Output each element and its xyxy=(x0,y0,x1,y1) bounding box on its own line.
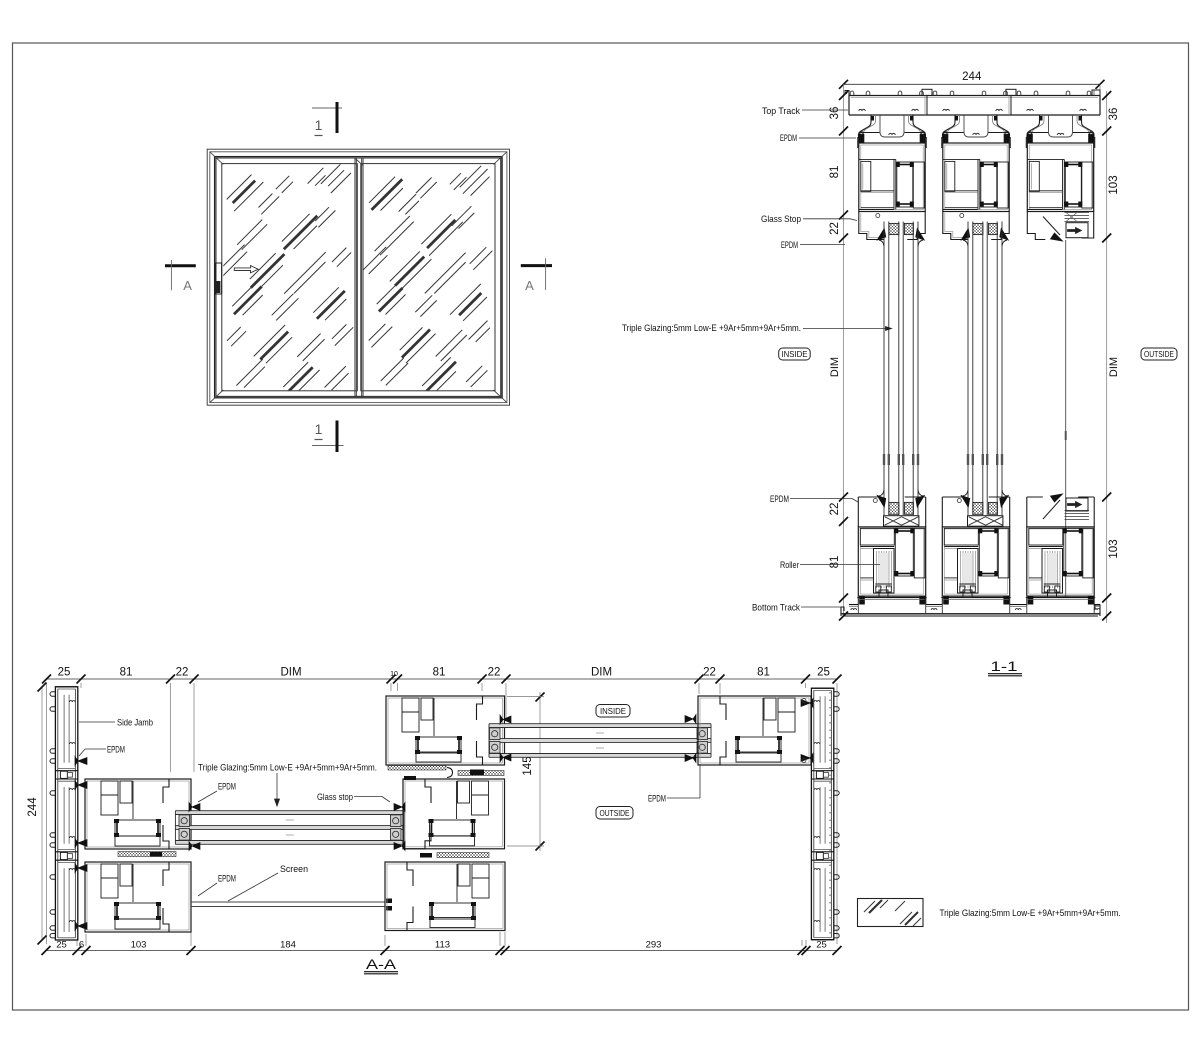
svg-text:293: 293 xyxy=(646,940,662,951)
sash main box xyxy=(943,143,1009,212)
svg-text:25: 25 xyxy=(817,667,830,679)
screen clamp detail xyxy=(1065,212,1090,214)
svg-text:INSIDE: INSIDE xyxy=(782,350,808,359)
EPDM clamps at glazing bottom xyxy=(877,496,886,508)
svg-text:103: 103 xyxy=(1108,175,1120,194)
neck EPDM dots xyxy=(1040,116,1043,121)
svg-text:10: 10 xyxy=(390,671,398,678)
svg-text:Triple Glazing:5mm Low-E +9Ar+: Triple Glazing:5mm Low-E +9Ar+5mm+9Ar+5m… xyxy=(940,908,1121,919)
glazing spacers xyxy=(973,223,983,234)
sash main box xyxy=(1027,143,1093,212)
svg-text:Bottom Track: Bottom Track xyxy=(752,603,800,614)
neck EPDM dots xyxy=(871,116,874,121)
EPDM gaskets top xyxy=(858,134,864,143)
interlock brush strips row2/row3 left xyxy=(118,852,176,857)
svg-text:Top Track: Top Track xyxy=(762,106,800,117)
left dim ticks xyxy=(839,91,848,100)
glass stop xyxy=(943,212,968,240)
svg-text:A: A xyxy=(183,278,192,293)
EPDM clamps at glazing bottom xyxy=(961,496,970,508)
plan sash box 403,779 xyxy=(403,779,505,849)
glazing spacers bottom xyxy=(889,502,899,514)
A-A top dim line xyxy=(47,678,838,680)
svg-text:1: 1 xyxy=(315,117,323,133)
INSIDE label A-A xyxy=(596,705,630,718)
svg-text:244: 244 xyxy=(962,71,982,83)
setting block bowtie xyxy=(968,516,1003,527)
EPDM at jamb row3 xyxy=(75,864,87,873)
jamb outer xyxy=(811,688,833,940)
top sash profile at 976 xyxy=(942,115,955,148)
neck EPDM dots xyxy=(955,116,958,121)
svg-text:EPDM: EPDM xyxy=(218,874,236,885)
slide direction arrow xyxy=(234,266,258,273)
svg-text:Glass stop: Glass stop xyxy=(317,792,353,803)
svg-text:22: 22 xyxy=(176,667,189,679)
section marker 1 top xyxy=(312,107,342,109)
bottom sash main box xyxy=(1027,527,1094,596)
sash main box xyxy=(859,143,925,212)
horizontal glazing strip 175.4-404 xyxy=(175,811,404,815)
EPDM gaskets bottom corners xyxy=(943,596,949,604)
svg-text:Side Jamb: Side Jamb xyxy=(117,718,153,729)
svg-text:81: 81 xyxy=(433,667,446,679)
diagonal stay xyxy=(1043,217,1060,236)
EPDM gaskets bottom corners xyxy=(859,596,865,604)
extension line right 244 xyxy=(1099,84,1101,98)
INSIDE label 1-1 xyxy=(779,348,811,360)
svg-text:A: A xyxy=(525,278,534,293)
setting block bowtie xyxy=(884,516,919,527)
screen clamp detail bottom xyxy=(1065,510,1090,512)
svg-text:25: 25 xyxy=(56,940,67,951)
A-A bottom dim line xyxy=(46,950,837,952)
svg-text:22: 22 xyxy=(829,222,841,235)
spacer blocks with circles xyxy=(179,815,190,827)
interlock brush strips row1/row2 xyxy=(388,766,446,771)
svg-text:103: 103 xyxy=(131,940,147,951)
svg-text:244: 244 xyxy=(27,797,39,817)
plan sash box 386,696 xyxy=(386,696,505,765)
svg-text:22: 22 xyxy=(829,503,841,516)
svg-text:25: 25 xyxy=(58,667,71,679)
glazing spacers bottom xyxy=(973,502,983,514)
screen line third sash xyxy=(1065,240,1067,597)
svg-text:EPDM: EPDM xyxy=(770,494,789,505)
svg-text:22: 22 xyxy=(703,667,716,679)
svg-text:Triple Glazing:5mm Low-E +9Ar+: Triple Glazing:5mm Low-E +9Ar+5mm+9Ar+5m… xyxy=(198,763,377,774)
screen clamps box F xyxy=(386,899,392,904)
handle xyxy=(215,263,221,294)
spacer blocks with circles xyxy=(697,728,708,740)
right sash frame xyxy=(355,158,501,396)
top sash profile at 1060.5 xyxy=(1026,115,1039,148)
svg-text:145: 145 xyxy=(522,756,534,775)
right dim line xyxy=(1106,91,1108,623)
legend glass symbol xyxy=(858,899,924,927)
right pane glass hatching xyxy=(360,166,492,391)
triple glazing lines at 985.0 xyxy=(967,222,969,516)
top sash profile at 892 xyxy=(858,115,871,148)
EPDM gaskets top xyxy=(942,134,948,143)
jamb outer xyxy=(55,687,77,940)
OUTSIDE label 1-1 xyxy=(1141,348,1177,360)
screen lines xyxy=(191,901,385,903)
elevation outer frame xyxy=(207,149,509,405)
EPDM gaskets top xyxy=(1027,134,1033,143)
triple glazing lines at 901.0 xyxy=(883,222,885,516)
svg-text:81: 81 xyxy=(120,667,133,679)
frame corner miters xyxy=(210,152,223,165)
svg-text:EPDM: EPDM xyxy=(107,745,125,756)
plan sash box 85,862 xyxy=(85,862,191,932)
glass stop xyxy=(859,212,884,240)
section 1-1 dimension 244 xyxy=(844,83,1101,85)
svg-text:113: 113 xyxy=(435,940,450,951)
extension line left xyxy=(843,84,845,616)
svg-text:DIM: DIM xyxy=(280,667,301,679)
bottom sash main box xyxy=(942,527,1009,596)
svg-text:DIM: DIM xyxy=(829,357,841,377)
plan sash box 85,779 xyxy=(85,779,191,849)
svg-text:Glass Stop: Glass Stop xyxy=(761,214,801,225)
EPDM wedges row2 xyxy=(189,803,200,812)
horizontal glazing strip 489-711 xyxy=(489,724,711,728)
A-A extension lines xyxy=(46,683,48,944)
interlock brush strips row2/row3 right xyxy=(437,853,489,858)
EPDM gaskets bottom corners xyxy=(1028,596,1034,604)
svg-text:INSIDE: INSIDE xyxy=(600,707,626,716)
svg-text:6: 6 xyxy=(79,940,84,951)
svg-text:A-A: A-A xyxy=(366,957,396,972)
svg-text:36: 36 xyxy=(1108,108,1120,121)
svg-text:EPDM: EPDM xyxy=(648,794,666,805)
meeting stile xyxy=(355,158,357,396)
section marker A left xyxy=(165,264,196,267)
EPDM wedges at glazing xyxy=(877,229,886,241)
elevation frame inner edge xyxy=(215,157,503,398)
left sash frame xyxy=(216,158,363,396)
svg-text:EPDM: EPDM xyxy=(780,133,797,144)
svg-text:OUTSIDE: OUTSIDE xyxy=(1144,350,1174,359)
spacer blocks with circles xyxy=(490,728,501,740)
roller xyxy=(1042,549,1063,594)
svg-text:103: 103 xyxy=(1108,539,1120,558)
roller xyxy=(874,549,895,594)
svg-text:81: 81 xyxy=(829,556,841,569)
svg-text:Roller: Roller xyxy=(780,560,799,571)
EPDM wedges box B right corners xyxy=(801,699,813,708)
145 vertical dim A-A xyxy=(539,692,541,851)
svg-text:EPDM: EPDM xyxy=(781,240,798,251)
screw with arrow xyxy=(1066,223,1088,238)
svg-text:OUTSIDE: OUTSIDE xyxy=(600,809,630,818)
svg-text:81: 81 xyxy=(757,667,770,679)
svg-text:81: 81 xyxy=(829,166,841,179)
glazing spacers xyxy=(889,223,899,234)
svg-text:Triple Glazing:5mm Low-E +9Ar+: Triple Glazing:5mm Low-E +9Ar+5mm+9Ar+5m… xyxy=(622,323,801,334)
svg-text:Screen: Screen xyxy=(280,864,308,875)
svg-text:DIM: DIM xyxy=(1108,357,1120,377)
svg-text:1: 1 xyxy=(315,421,323,437)
OUTSIDE label A-A xyxy=(596,807,633,820)
plan sash box 698,696 xyxy=(698,696,811,765)
EPDM wedges at glazing xyxy=(961,229,970,241)
roller xyxy=(958,549,979,594)
svg-text:EPDM: EPDM xyxy=(218,782,236,793)
svg-text:184: 184 xyxy=(280,940,296,951)
plan sash box 385,862 xyxy=(385,862,505,931)
EPDM wedges row1 xyxy=(685,715,696,724)
right dim ticks xyxy=(1102,91,1111,100)
svg-text:25: 25 xyxy=(816,940,827,951)
svg-text:36: 36 xyxy=(829,107,841,120)
bottom sash main box xyxy=(858,527,925,596)
section marker A right xyxy=(521,264,552,267)
spacer blocks with circles xyxy=(391,815,402,827)
svg-text:22: 22 xyxy=(488,667,501,679)
bottom track xyxy=(841,613,1100,615)
svg-text:1-1: 1-1 xyxy=(991,659,1018,674)
top track xyxy=(849,95,1100,97)
EPDM at jamb row2 xyxy=(75,781,87,790)
EPDM wedge row1 jamb area xyxy=(75,757,87,766)
svg-text:DIM: DIM xyxy=(591,667,612,679)
left pane glass hatching xyxy=(215,163,353,398)
